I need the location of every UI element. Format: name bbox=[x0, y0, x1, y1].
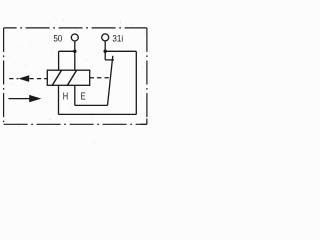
svg-text:31i: 31i bbox=[112, 33, 123, 44]
svg-text:50: 50 bbox=[53, 33, 62, 44]
svg-text:H: H bbox=[63, 90, 68, 101]
svg-text:E: E bbox=[81, 90, 86, 101]
